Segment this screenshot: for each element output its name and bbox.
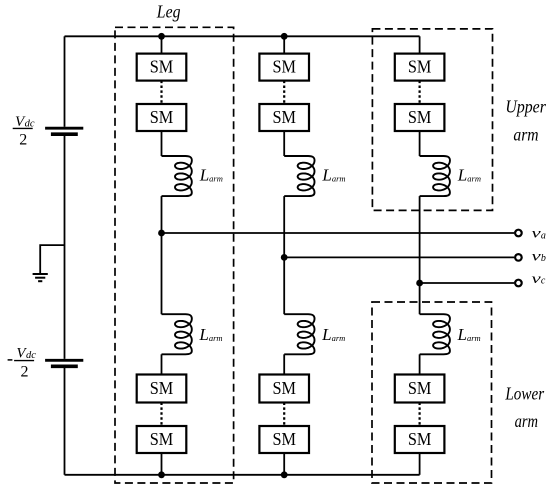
node leg1 bottom junction [158, 471, 165, 478]
submodule SM leg1 lower 1 [137, 375, 187, 403]
wire left rail upper segment [64, 36, 66, 127]
submodule SM leg2 upper 2 [259, 104, 309, 131]
wire leg1 bottom drop [161, 453, 163, 475]
inductor Larm leg2 lower [284, 314, 314, 354]
Leg dashed box [115, 27, 234, 483]
svg-text:SM: SM [150, 429, 174, 449]
dotted link leg1 lower [160, 403, 162, 427]
submodule SM leg2 upper 1 [259, 54, 309, 81]
svg-text:SM: SM [272, 378, 296, 398]
wire leg3 top drop [419, 36, 421, 53]
node phase b junction [281, 254, 288, 261]
svg-text:2: 2 [19, 131, 27, 148]
wire leg1 lower inductor to SM [161, 354, 163, 374]
svg-text:SM: SM [150, 107, 174, 127]
svg-text:SM: SM [408, 429, 432, 449]
wire bottom dc rail [65, 474, 420, 476]
svg-text:dc: dc [26, 350, 36, 361]
inductor Larm leg3 lower [420, 314, 450, 354]
node phase c junction [416, 280, 423, 287]
dotted link leg2 upper [283, 81, 285, 104]
submodule SM leg3 lower 1 [395, 375, 445, 403]
wire leg1 SM to upper inductor [161, 131, 163, 156]
svg-text:c: c [541, 276, 546, 287]
svg-text:b: b [541, 253, 546, 264]
wire leg2 SM to upper inductor [283, 131, 285, 156]
wire leg2 lower inductor to SM [283, 354, 285, 374]
node leg1 top junction [158, 33, 165, 40]
label va [532, 227, 546, 242]
label vc [532, 272, 546, 287]
label vb [532, 250, 546, 265]
wire leg2 upper inductor to output node [283, 196, 285, 257]
wire ground tap [40, 245, 64, 273]
dotted link leg1 upper [160, 81, 162, 104]
svg-text:SM: SM [150, 378, 174, 398]
terminal va [515, 230, 522, 237]
inductor Larm leg1 upper [162, 156, 192, 196]
svg-text:SM: SM [272, 107, 296, 127]
submodule SM leg1 upper 2 [137, 104, 187, 131]
label Upper arm [505, 97, 546, 145]
wire leg1 upper inductor to output node [161, 196, 163, 233]
dotted link leg3 lower [419, 403, 421, 427]
wire leg1 top drop [161, 36, 163, 53]
label -Vdc/2 lower [8, 346, 37, 381]
terminal vc [515, 280, 522, 287]
svg-text:SM: SM [408, 378, 432, 398]
wire leg3 lower inductor to SM [419, 354, 421, 374]
node leg2 bottom junction [281, 471, 288, 478]
submodule SM leg3 lower 2 [395, 426, 445, 453]
svg-text:SM: SM [150, 57, 174, 77]
svg-text:Lower: Lower [505, 383, 545, 403]
svg-text:Leg: Leg [156, 1, 181, 21]
submodule SM leg3 upper 1 [395, 54, 445, 81]
inductor Larm leg3 upper [420, 156, 450, 196]
submodule SM leg2 lower 2 [259, 426, 309, 453]
inductor Larm leg2 upper [284, 156, 314, 196]
svg-text:dc: dc [25, 118, 35, 129]
svg-text:SM: SM [408, 57, 432, 77]
Upper arm dashed box [372, 29, 492, 211]
terminal vb [515, 254, 522, 261]
svg-text:SM: SM [408, 107, 432, 127]
node leg2 top junction [281, 33, 288, 40]
svg-text:arm: arm [513, 124, 538, 144]
wire leg3 bottom drop [419, 453, 421, 475]
dc source Vdc/2 upper battery [45, 128, 83, 134]
svg-text:SM: SM [272, 57, 296, 77]
wire leg1 output node to lower inductor [161, 233, 163, 314]
submodule SM leg1 lower 2 [137, 426, 187, 453]
svg-text:2: 2 [21, 364, 29, 381]
svg-text:a: a [541, 230, 546, 241]
wire leg2 bottom drop [283, 453, 285, 475]
wire phase b output [284, 256, 514, 258]
svg-text:arm: arm [515, 411, 538, 431]
wire left rail middle segment [64, 136, 66, 359]
svg-text:SM: SM [272, 429, 296, 449]
submodule SM leg1 upper 1 [137, 54, 187, 81]
wire leg2 output node to lower inductor [283, 257, 285, 314]
svg-text:Upper: Upper [505, 97, 546, 117]
Lower arm dashed box [372, 302, 492, 483]
wire leg3 output node to lower inductor [419, 283, 421, 314]
wire left rail lower segment [64, 368, 66, 475]
inductor Larm leg1 lower [162, 314, 192, 354]
wire leg3 SM to upper inductor [419, 131, 421, 156]
ground symbol [33, 274, 48, 281]
submodule SM leg3 upper 2 [395, 104, 445, 131]
label Lower arm [505, 383, 545, 431]
dc source Vdc/2 lower battery [45, 360, 83, 366]
submodule SM leg2 lower 1 [259, 375, 309, 403]
node phase a junction [158, 230, 165, 237]
wire top dc rail [65, 35, 420, 37]
wire phase c output [420, 282, 515, 284]
label Vdc/2 upper [13, 114, 35, 149]
wire leg3 upper inductor to output node [419, 196, 421, 283]
dotted link leg2 lower [283, 403, 285, 427]
dotted link leg3 upper [419, 81, 421, 104]
wire leg2 top drop [283, 36, 285, 53]
wire phase a output [162, 232, 515, 234]
